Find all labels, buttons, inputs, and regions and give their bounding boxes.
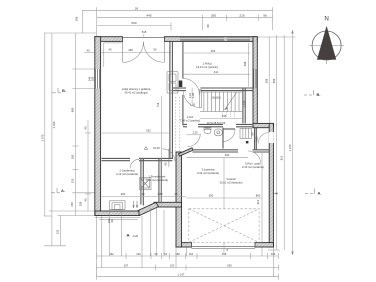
svg-text:508: 508 [243,61,247,66]
dim 490 garage [187,153,249,158]
wall garage right [269,123,273,247]
svg-text:33,01 m2 (lastryko): 33,01 m2 (lastryko) [219,181,242,185]
svg-text:500: 500 [131,21,136,25]
svg-text:5.Pom. gosp.: 5.Pom. gosp. [245,162,261,166]
svg-text:208: 208 [79,201,83,206]
tiny labels below bottom wall [107,218,114,223]
svg-text:N: N [324,16,328,23]
left outer chain bottom [44,201,96,246]
svg-text:25: 25 [175,192,178,196]
bottom dimension row 3 total [97,273,279,280]
dim 441 room1 [183,49,250,74]
svg-text:216: 216 [239,14,244,18]
left dimension chain 3160 [49,33,96,246]
right dimension chain 3 [280,35,285,250]
svg-text:191: 191 [136,252,141,256]
svg-text:454: 454 [211,49,216,53]
svg-text:150: 150 [91,76,95,81]
label lazienka [197,168,219,176]
wall bottom-left [95,211,139,216]
svg-text:10,5x18,5=2,05: 10,5x18,5=2,05 [207,121,226,125]
svg-text:1,22: 1,22 [255,136,259,142]
left dimension chain 2370 [41,33,96,216]
hall label [180,115,200,123]
wall chamfer [137,202,159,215]
understair dashed lines [175,97,177,151]
svg-text:4,19 m2 (terakota): 4,19 m2 (terakota) [116,172,138,176]
svg-text:812: 812 [256,199,260,204]
bottom extension lines [97,207,274,277]
svg-text:60: 60 [155,252,158,256]
dim 632 [102,129,171,134]
svg-text:13: 13 [142,192,145,196]
svg-text:A.: A. [61,188,65,193]
stair lower flight hatch [240,128,254,143]
garage door arc from utility [248,151,261,164]
bottom dimension row 2 [97,264,279,271]
label garage [219,177,242,185]
stairs [200,92,243,112]
left near-wall chain [84,120,92,211]
svg-text:441: 441 [214,70,219,74]
svg-text:B.: B. [317,92,321,97]
svg-text:508: 508 [265,78,269,83]
svg-text:125: 125 [71,178,75,183]
wall left [95,37,101,216]
dim 718 vertical [156,96,162,204]
svg-text:13,31 m2 (panele): 13,31 m2 (panele) [196,65,218,69]
wc left wall [222,128,224,149]
svg-text:90: 90 [110,219,114,222]
terrace edge lines [95,218,140,220]
bottom dimension row 1 [97,252,279,259]
svg-text:B.: B. [62,88,66,93]
svg-text:632: 632 [146,129,151,133]
interior wall kitchen/hall [182,42,184,126]
dim under french door [84,48,171,56]
inner finish line [104,43,122,67]
label przedsionek [146,175,168,183]
svg-text:1 370: 1 370 [288,144,292,151]
wc door arc [224,129,236,142]
label garderoba [116,169,138,177]
entry steps [110,201,126,210]
svg-text:40: 40 [109,48,112,52]
svg-text:1,025: 1,025 [243,100,247,107]
bathroom door from hall [187,134,200,147]
svg-text:A.: A. [318,191,322,196]
window left [95,69,100,89]
svg-text:3 160: 3 160 [52,121,56,128]
svg-text:518: 518 [142,30,147,34]
svg-text:458: 458 [222,252,227,256]
svg-text:1,80: 1,80 [157,192,163,196]
label pom gosp [242,162,264,170]
section marker B left [52,88,66,93]
dim 508 inside [243,43,249,107]
label living room [122,87,151,95]
svg-text:-0,20: -0,20 [132,234,139,238]
level mark -0.20 [126,234,138,239]
svg-text:556: 556 [272,78,276,83]
svg-text:96: 96 [263,14,267,18]
svg-text:15x18,6: 15x18,6 [211,96,221,100]
svg-text:3.Łazienka: 3.Łazienka [202,168,216,172]
svg-text:1,95: 1,95 [190,103,196,107]
tick right wall 40 [273,193,277,195]
svg-text:3,09 m2 (terakota): 3,09 m2 (terakota) [197,171,219,175]
svg-text:900: 900 [121,192,126,196]
svg-text:1,20: 1,20 [192,131,198,135]
garderoba appliance [140,178,152,190]
section marker B right [304,90,321,97]
svg-text:718: 718 [156,102,160,107]
svg-text:232: 232 [56,229,60,234]
svg-text:2 370: 2 370 [41,134,45,141]
garage bottom center tick [224,243,229,253]
svg-text:39,41 m2 (podłoga): 39,41 m2 (podłoga) [124,91,147,95]
svg-text:636: 636 [227,264,232,268]
svg-text:1 147: 1 147 [178,273,185,277]
svg-text:90: 90 [154,48,157,52]
dim 550 garage [187,158,263,209]
wall step right [253,123,273,127]
window right wall [253,69,257,89]
svg-text:±0,00: ±0,00 [153,146,160,150]
svg-text:880: 880 [71,107,75,112]
wall top-right [165,37,258,42]
svg-text:1.Pokój: 1.Pokój [203,62,212,66]
svg-text:180: 180 [71,154,75,159]
window top 2 [227,38,250,41]
svg-text:2,16 m2 (terakota): 2,16 m2 (terakota) [242,165,264,169]
steps extension lines [102,210,122,268]
svg-text:150: 150 [70,202,74,207]
stair door leaf and arc [183,90,201,108]
wall garage bottom [176,243,192,247]
garderoba top wall [102,158,173,160]
small labels near stairs door [188,88,196,107]
wc fixtures [204,128,223,136]
interior wall below room1 [172,88,253,91]
svg-text:4.Garaż: 4.Garaż [226,177,236,181]
vestibule left wall [158,158,160,202]
top dimension row C [97,21,171,37]
french door arcs [123,42,165,63]
pomgosp left wall [254,128,256,150]
kitchen sink unit [167,72,182,94]
top dimension row B [97,14,273,30]
svg-text:860: 860 [256,194,261,198]
svg-text:197: 197 [124,264,129,268]
garage top wall [179,148,270,156]
level mark 0.00 [144,146,160,150]
hall door arc [183,79,200,96]
garage interior dim 812 [256,152,278,243]
svg-text:490: 490 [128,48,133,52]
stair dashed continuation [223,112,235,118]
corridor wall [183,124,253,126]
svg-text:40: 40 [87,49,90,53]
stair right wall [242,88,244,123]
svg-text:26: 26 [135,6,139,10]
garderoba right wall [140,158,142,204]
svg-text:2.Hol: 2.Hol [187,115,194,119]
svg-text:208: 208 [75,16,79,21]
svg-text:40: 40 [84,126,88,129]
svg-text:445: 445 [146,14,151,18]
svg-text:40: 40 [275,192,278,196]
wall nook horizontal [154,202,182,207]
svg-text:120: 120 [170,264,175,268]
svg-text:162: 162 [109,252,114,256]
svg-text:7,96 m2 (parkiet): 7,96 m2 (parkiet) [180,119,200,123]
wall top-left [95,37,123,42]
svg-text:110: 110 [189,252,194,256]
garage side door arc right wall [258,132,274,144]
garage dashed opening [189,209,259,243]
vestibule door arc [162,149,175,162]
svg-text:550: 550 [209,194,214,198]
entry walk lines [150,208,164,256]
label room1 [196,62,218,70]
svg-text:40: 40 [84,198,88,201]
opening french door top [123,37,164,41]
wall right upper [253,37,257,128]
svg-text:1,98: 1,98 [191,92,195,98]
left dimension chain ticks [71,33,97,216]
garderoba door arc [130,159,139,168]
svg-text:1.Przedsionek: 1.Przedsionek [148,175,166,179]
section marker A right [305,189,322,196]
top dimension row A [75,6,273,36]
svg-text:90: 90 [164,162,168,165]
svg-text:89: 89 [206,24,210,27]
dim 335 [200,114,244,119]
wall garage left [176,152,182,247]
svg-text:812: 812 [280,155,284,160]
svg-text:pókój dzienny z jadalnią: pókój dzienny z jadalnią [122,87,151,91]
left window label 240/150 [88,76,95,81]
dim row garderoba [102,192,187,197]
svg-text:3,41 m2 (terakota): 3,41 m2 (terakota) [146,178,168,182]
window top 1 [180,38,224,41]
svg-text:2.Garderoba: 2.Garderoba [119,169,135,173]
svg-text:350: 350 [211,14,216,18]
right dimension chain 4 [288,30,294,255]
svg-text:51: 51 [164,252,167,256]
svg-text:490: 490 [225,153,230,157]
entry arrows [132,201,138,208]
north arrow [309,16,344,65]
svg-text:80: 80 [250,132,254,135]
right dimension chain 2 [268,35,280,250]
small vert dim right of wc [255,136,259,142]
interior wall living/hall [169,42,171,159]
right dimension chain 1 [258,37,296,123]
section marker A left [51,188,65,193]
